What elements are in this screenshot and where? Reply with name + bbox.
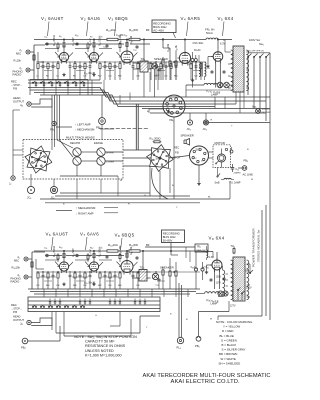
cathode ground V1 [63,73,65,75]
multi track heads box [23,140,123,180]
wire rail drop V1 [63,40,65,51]
wire bus a [28,79,100,81]
jack JC2 [187,120,192,125]
svg-text:R110k: R110k [14,59,22,64]
SW3 pin dots [165,161,167,163]
screen resistor V8 [119,253,121,254]
svg-text:REC MKR: REC MKR [262,112,272,114]
switch contacts under PT2 [237,289,238,290]
triode V7 [89,262,98,271]
svg-text:OUTPUT: OUTPUT [13,318,24,322]
svg-text:↓ MECHANISM: ↓ MECHANISM [75,128,95,132]
svg-text:LAMP: LAMP [211,93,218,97]
svg-text:R22 600Ω: R22 600Ω [52,35,57,46]
switch SW1 contacts [32,82,33,83]
tube leads V2 [85,52,89,57]
svg-text:Y = YELLOW: Y = YELLOW [223,325,240,329]
svg-text:ERASE: ERASE [94,141,103,145]
screen resistor V1 [57,43,59,44]
wire head feed 1 [51,95,53,140]
svg-text:117V: 117V [216,282,222,285]
resistor R55 [129,250,140,252]
PT2 taps [226,273,229,275]
svg-text:POWER TRANSFORMER: POWER TRANSFORMER [252,228,256,267]
svg-text:R27 1M: R27 1M [89,38,93,46]
wire bus e [34,93,236,105]
junction dots upper [42,61,43,62]
wire bank drop 3 [63,312,65,337]
svg-text:P.B: P.B [13,310,17,314]
recording bias box lower [162,230,185,243]
wire rail drop V4 [184,40,186,51]
svg-text:V4 6AR5: V4 6AR5 [181,16,201,22]
svg-text:R5410A: R5410A [108,243,118,248]
wire bottom long 1 [56,332,140,334]
wire long mid 1 [142,108,270,110]
svg-text:↑ MECHANISM: ↑ MECHANISM [76,206,96,210]
svg-text:K=1,000 M=1,000,000: K=1,000 M=1,000,000 [85,353,122,357]
wire V9 drops [214,270,216,289]
svg-text:V6 6AU6T: V6 6AU6T [46,232,69,238]
electrolytic C60 [194,268,197,271]
wire rail drop V2 [93,40,95,51]
divider left amp [56,126,72,128]
svg-text:AKAI ELECTRIC CO.LTD.: AKAI ELECTRIC CO.LTD. [171,379,241,385]
svg-text:V9 6X4: V9 6X4 [209,236,225,242]
SC2 ground [198,165,200,182]
wire rail drop TO2 [142,251,144,270]
wire input bus lower [31,252,33,289]
wire lamp to head [101,124,103,139]
svg-text:RADIO: RADIO [13,72,23,76]
wire mech t2 [76,179,78,199]
svg-text:C29.05 C30: C29.05 C30 [116,34,127,38]
svg-text:R58 100k: R58 100k [119,245,123,255]
wire mech h3 [123,165,150,167]
screen resistor V7 [87,254,89,255]
wire JC3 line [209,122,270,124]
wire rail drop V6 [63,251,65,260]
bank box edges upper [29,80,31,96]
wire mech h2 [123,157,152,159]
jack JC5 [50,186,57,193]
wire right vertical 3 [259,57,261,113]
svg-text:R30 10k: R30 10k [130,35,134,44]
wire bus f [40,95,215,107]
svg-text:OSC 40kc: OSC 40kc [193,42,205,45]
wire input bus [33,45,35,80]
wire right edge 1 [261,210,263,316]
wire head feed 3 [56,95,58,140]
wire mech h1 [123,149,152,151]
svg-text:BL = BLUE: BL = BLUE [220,334,234,338]
wire mech v1 [159,171,161,199]
jack JB loop [27,320,31,324]
triode V6 [59,262,68,271]
svg-text:MIC: MIC [14,258,19,262]
resistor R24 [107,38,118,40]
cathode ground V2 [93,73,95,75]
wire bank drop 2 [55,312,57,334]
wire mech t3 [100,179,102,193]
svg-text:STEREO·MONAURAL Sw: STEREO·MONAURAL Sw [257,230,261,262]
capacitor C58 [158,278,160,279]
wire head feed 2 [54,95,56,140]
SC2 pins [203,158,205,160]
svg-text:G = GREEN: G = GREEN [221,338,237,342]
wire bias feed lower [170,243,172,256]
bus tie wires [43,80,45,95]
svg-text:HEAD: HEAD [13,96,21,100]
wire TR2 feeds [145,246,195,248]
svg-text:AC LINE: AC LINE [243,173,254,177]
svg-text:R5210k: R5210k [12,266,21,271]
svg-text:Sw6: Sw6 [252,106,256,110]
svg-text:50~80V: 50~80V [163,238,173,242]
svg-text:ALL OFF OFF ON: ALL OFF OFF ON [248,50,265,53]
coupling line upper [45,43,62,45]
tube leads V6 [55,262,59,267]
svg-text:SwB: SwB [215,181,220,184]
socket SC1 [163,95,185,117]
svg-text:P.B: P.B [175,152,179,155]
wire right edge 3 [269,123,271,321]
rotary switch SW3 [147,145,174,172]
plug PB5 [198,312,200,337]
svg-text:UPPER: UPPER [106,153,114,155]
cathode bus upper [36,61,206,63]
svg-text:100V: 100V [246,287,252,290]
svg-text:BR = BROWN: BR = BROWN [219,352,237,356]
motor box [213,145,231,168]
wire mech bus3 [60,192,150,194]
coupling line lower [45,255,62,257]
svg-text:RESISTANCE IN OHMS: RESISTANCE IN OHMS [85,344,126,348]
pilot lamp PL-B [224,82,230,88]
tube leads V3 [117,52,122,57]
svg-text:NOTE : COLOR MARKING: NOTE : COLOR MARKING [216,320,253,324]
svg-text:C52 50P: C52 50P [72,248,76,257]
svg-text:R57 1M: R57 1M [89,249,93,257]
motor aux circle [230,150,233,153]
junction dots rail lower [63,250,64,251]
wire V9 leads [216,252,218,260]
wire head feed 4 [59,95,61,140]
svg-text:LAMP: LAMP [211,303,218,306]
svg-text:SPEAKER: SPEAKER [160,265,174,269]
svg-text:30+30: 30+30 [194,50,201,52]
switch bank box lower [28,297,160,312]
pilot lamp PL-C [218,291,223,296]
osc transformer T2 [199,62,200,77]
svg-text:R = RED: R = RED [222,329,234,333]
junction dots lower [42,271,43,272]
svg-text:BF: BF [146,28,150,32]
svg-text:50mA: 50mA [206,31,213,35]
pentode V4 [179,52,190,63]
svg-text:OUTPUT: OUTPUT [13,99,24,103]
rectifier V5 [213,52,223,62]
switch SW5 contacts [247,56,248,57]
svg-text:G: G [144,195,146,197]
jack JC4 [27,186,34,193]
PT2 inner coil left [231,260,233,300]
divider mechanism 2 [56,210,72,212]
wire mech bus2 [55,195,190,197]
screen resistor V2 [87,43,89,44]
wire bottom long 2 [64,335,131,337]
svg-text:SH = SHIELDED: SH = SHIELDED [219,361,241,365]
svg-text:S = SILVER GRAY: S = SILVER GRAY [222,348,246,352]
switch Sw5 lower [249,272,250,273]
triode V2 [89,52,98,61]
recording bias box [152,20,176,33]
wire bank drop 1 [51,312,53,331]
svg-text:HEAD: HEAD [13,315,21,319]
svg-text:R62 600Ω: R62 600Ω [52,246,57,257]
triode V1 [59,52,68,61]
resistor R32 [162,59,164,60]
svg-text:V1 6AU6T: V1 6AU6T [41,16,64,22]
wire right bend bottom [218,315,262,317]
jack left edge [11,176,15,180]
lamp PL1 [101,95,103,118]
component mesh lower amp [37,271,39,273]
svg-text:MOTOR: MOTOR [215,141,225,145]
wire TO1 drops [143,72,145,97]
svg-text:B = BLACK: B = BLACK [222,343,237,347]
svg-text:REC: REC [11,303,17,307]
junction dots rail [63,39,64,40]
tube leads V1 [55,52,59,57]
wire right vertical 4 [265,57,267,121]
svg-text:R2410A: R2410A [106,28,116,33]
tube leads V7 [85,262,89,267]
small caps row upper [46,42,48,43]
pilot lamp PL-A [217,82,223,88]
wire mech bus4 [45,202,200,204]
electrolytic C34 [194,59,197,62]
B+ rail upper [34,39,107,41]
svg-text:100V: 100V [216,276,222,279]
power transformer PT1 [233,46,244,92]
svg-text:↓ RIGHT AMP: ↓ RIGHT AMP [76,212,94,216]
pilot lamp PL-D [223,291,228,296]
svg-text:R60 10k: R60 10k [130,246,134,255]
wire bus lower c [34,293,190,295]
svg-text:MULTI TRACK HEADS: MULTI TRACK HEADS [66,136,95,140]
wire right edge 2 [265,205,267,316]
choke FR2 [206,38,218,40]
wire mech v3 [169,168,171,193]
plug PB1 mid [52,121,56,125]
wire mech bus1 [40,198,230,200]
jack JA loop [27,102,31,106]
wire long mid 2 [150,112,266,114]
svg-text:TR2: TR2 [197,245,201,249]
svg-text:TOP PLT: TOP PLT [262,109,271,111]
svg-text:100V Sw: 100V Sw [249,38,261,42]
wire bus lower b [30,291,196,293]
svg-text:25MFD: 25MFD [234,173,242,175]
svg-text:BF: BF [146,243,150,247]
wire right vertical 2 [253,57,255,109]
switch SwB [217,176,218,177]
svg-text:12TV: 12TV [230,306,236,308]
wire V9 plate feed [200,250,213,253]
PT1 taps [228,51,231,53]
wire V5 drops [215,62,217,88]
PT2 primary coil [223,270,225,296]
B+ rail lower [34,250,107,252]
wire bottom long 3 [119,312,121,327]
svg-text:REC/P.B: REC/P.B [70,141,80,145]
svg-text:REC: REC [174,147,179,150]
svg-text:UNLESS NOTED: UNLESS NOTED [85,349,114,353]
svg-text:V7 6AV6: V7 6AV6 [80,232,99,238]
bias osc TR2 [195,244,208,252]
wire bias feed [162,38,164,48]
head wires [51,140,53,150]
svg-text:CAPACITY 50 MF: CAPACITY 50 MF [85,340,115,344]
wire bus b [28,82,102,84]
component mesh upper amp [37,62,39,64]
svg-text:V3 6BQ5: V3 6BQ5 [108,16,128,22]
resistor R62 [162,269,164,270]
motor symbol [218,154,226,162]
bank rails lower [28,300,160,302]
svg-text:SPEAKER: SPEAKER [181,134,194,138]
SW2 pin dots [44,161,46,163]
PT1 secondary coil [246,50,248,91]
svg-text:LOWER: LOWER [106,162,114,164]
resistor R54 [107,250,118,252]
erase head lower [97,157,105,165]
socket SC2 [190,146,209,165]
svg-text:C22 50P: C22 50P [72,37,76,46]
wires into SC1 [149,108,163,110]
svg-text:AC~45V: AC~45V [153,28,164,32]
svg-text:P.B: P.B [13,87,17,91]
power transformer PT2 [233,257,245,301]
svg-text:V5 6X4: V5 6X4 [218,16,234,22]
electrolytic C33 [191,59,194,62]
rectifier V9 [212,260,222,270]
rec pb head upper [73,148,81,156]
grid line lower [45,259,59,261]
pentode V8 [121,261,133,273]
osc transformer T3 [207,250,208,258]
cathode ground V6 [63,282,65,284]
wire right vertical 5 [269,53,271,123]
svg-text:V8 6BQ5: V8 6BQ5 [115,233,135,239]
plug PL3 [178,283,180,337]
svg-text:R255W: R255W [129,28,138,33]
tube leads V8 [117,262,122,267]
svg-text:↑ LEFT AMP: ↑ LEFT AMP [75,123,91,127]
svg-text:FU, 2AMP: FU, 2AMP [230,181,241,184]
svg-text:G: G [95,315,97,317]
svg-text:REC: REC [11,80,17,84]
wire V5 plate [217,40,219,50]
svg-text:MIC: MIC [16,51,21,55]
svg-text:W = WHITE: W = WHITE [221,357,236,361]
wire PB5 tie [217,316,219,320]
screen resistor V3 [119,42,121,43]
PT1 primary coil [231,50,233,91]
capacitor C32 [158,68,160,69]
grid line upper [45,48,59,50]
pentode V3 [121,51,133,63]
PT2 outer coil right [247,260,249,300]
svg-text:SPEAKER: SPEAKER [154,57,168,61]
wire mech t1 [117,176,119,196]
plug PB4 [22,338,28,344]
svg-text:RADIO: RADIO [11,279,21,283]
wire bus c [28,88,270,98]
wire rail drop V8 [126,251,128,259]
wire bus d [30,90,266,101]
heater winding lower [205,292,219,294]
motor capacitor C24 [232,164,234,168]
wire right vertical 1 [247,57,249,95]
SC1 pins [179,107,182,110]
wire rail drop V3 [126,40,128,50]
bus verticals right [214,97,216,109]
cathode bus lower [36,271,200,273]
switch SW6 cluster [256,109,261,114]
wire rail drop V7 [93,251,95,260]
small caps row lower [46,254,48,255]
svg-text:R555W: R555W [129,243,138,248]
wire mech d1 [169,156,190,159]
cathode ground V7 [93,282,95,284]
wire rail drop TO1 [143,40,145,62]
screen resistor V6 [57,254,59,255]
bank components lower [49,299,51,302]
erase head upper [97,148,105,156]
rec pb head lower [73,157,81,165]
electrolytic C61 [201,268,204,271]
svg-text:V2 6AU6: V2 6AU6 [81,16,101,22]
wire mech v2 [149,166,151,196]
svg-text:R34 8k: R34 8k [175,44,179,52]
bus ties lower [43,289,45,297]
heater winding upper [204,83,217,85]
svg-text:2O: 2O [201,161,204,163]
wire bus lower a [28,288,200,290]
jack JC3 [203,120,208,125]
resistor R25 [129,38,140,40]
bank caps upper [35,83,37,84]
cable pair mid [135,104,137,150]
switch SW7 contacts [32,306,33,307]
rotary switch SW2 [25,146,52,173]
